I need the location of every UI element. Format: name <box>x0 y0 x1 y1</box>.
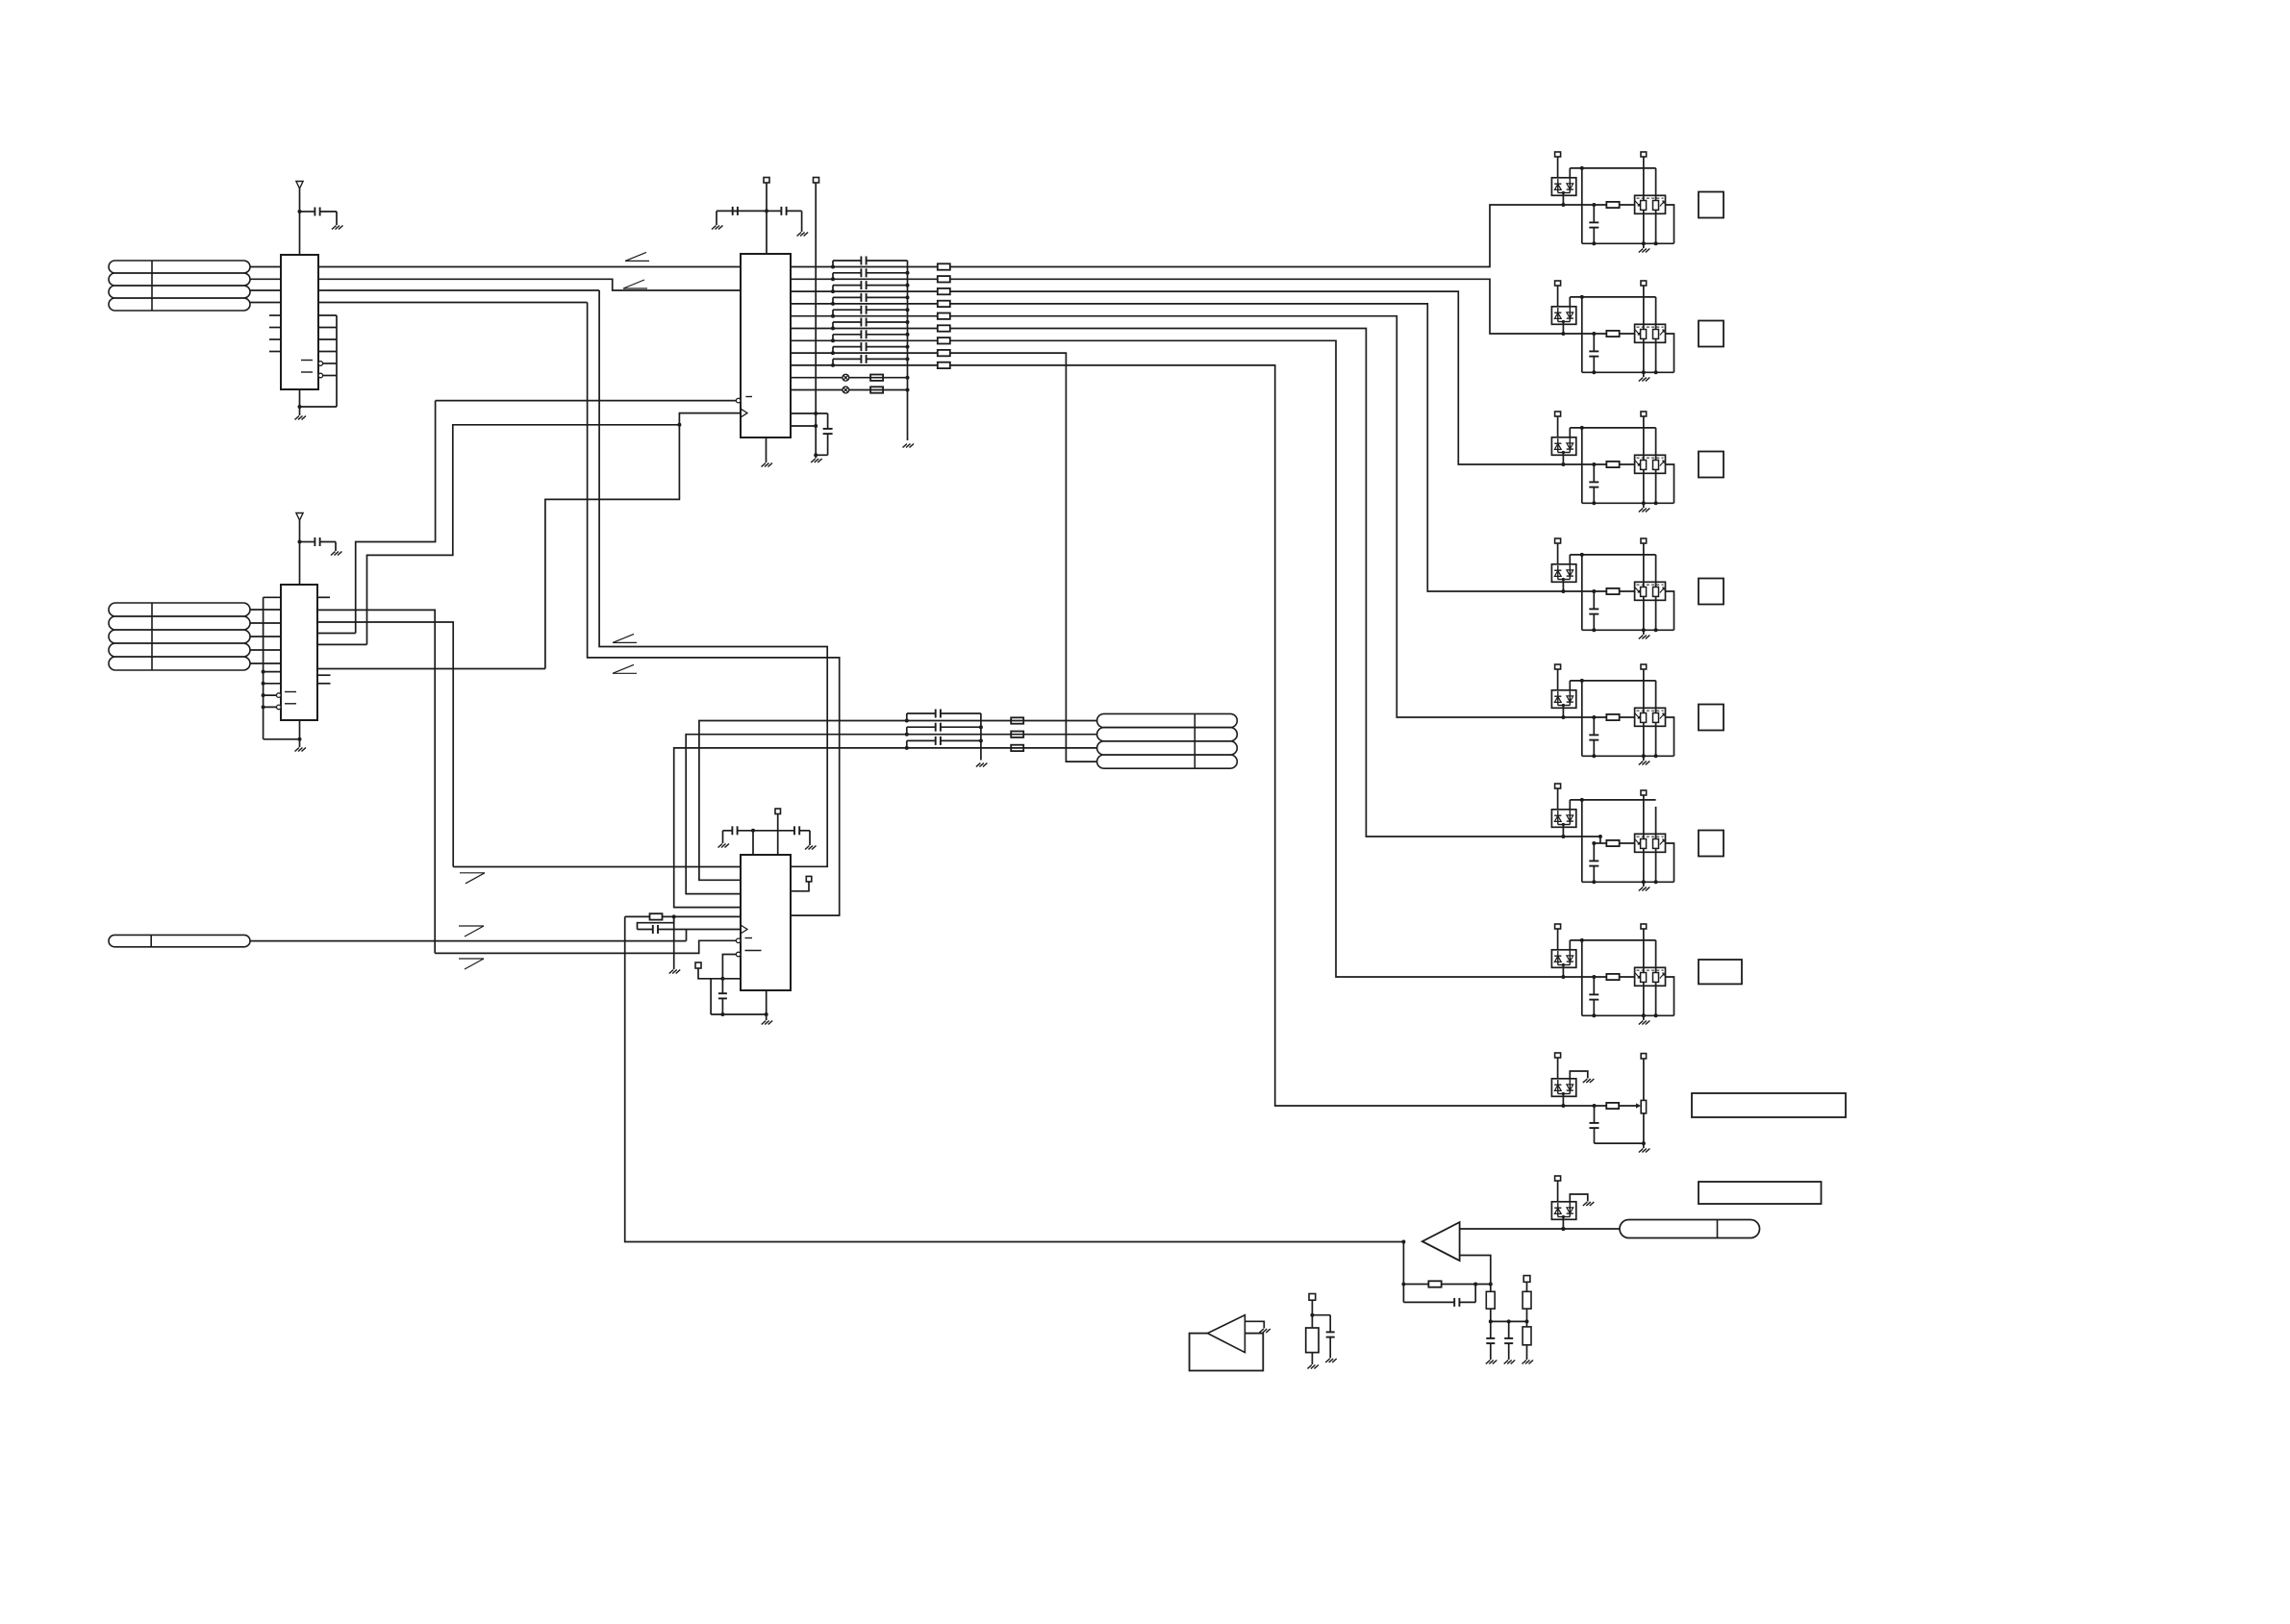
ground D jog <box>1583 1079 1595 1083</box>
TVS diode D box <box>1551 178 1575 196</box>
wire Rb to relay <box>1620 976 1635 978</box>
capacitor C8 <box>673 916 675 922</box>
wire R4 left <box>625 915 650 917</box>
ground U3 <box>762 463 773 467</box>
connector J3 pill contacts <box>1097 713 1238 727</box>
zener D left <box>1557 565 1559 580</box>
capacitor C13 <box>832 286 834 292</box>
wire D jog to ground 9 <box>1570 1194 1588 1202</box>
terminal TP7 <box>1309 1294 1316 1301</box>
resistor R8 <box>1526 1282 1528 1291</box>
arrow K right <box>1660 587 1665 593</box>
TVS diode D box <box>1551 1202 1575 1220</box>
node block9 junction <box>1561 1227 1565 1231</box>
output port P8 <box>1692 1093 1846 1117</box>
node cap top junction <box>1592 462 1596 466</box>
wire U4 clock net row <box>453 866 741 868</box>
wire K right riser <box>1655 555 1657 587</box>
net arrow U4 row1 <box>460 872 485 874</box>
node SCK branch junction <box>677 423 681 427</box>
TVS diode D box <box>1551 564 1575 583</box>
wire TP5 net to U4 pin <box>722 955 736 979</box>
resistor R15 <box>938 313 950 319</box>
capacitor C1 <box>300 211 315 212</box>
wire relay return <box>1666 205 1674 243</box>
wire D to line <box>1562 453 1564 465</box>
node R4 junction <box>672 914 676 918</box>
wire D common <box>1558 705 1571 707</box>
terminal T1 <box>1555 664 1561 669</box>
speaker LS1 <box>1190 1334 1264 1371</box>
zener D left <box>1557 179 1559 193</box>
zener D left <box>1557 811 1559 825</box>
terminal T2 <box>1641 412 1647 416</box>
U2 right stub a <box>317 674 331 676</box>
output port P5 <box>1699 705 1724 731</box>
connector J3 divider <box>1194 713 1195 768</box>
terminal TP6 <box>1523 1276 1530 1283</box>
wire D common <box>1558 321 1571 323</box>
wire TP1 to U3 <box>766 183 768 254</box>
zener D right <box>1569 950 1571 965</box>
wire U3 out3 <box>791 290 938 292</box>
output port P2 <box>1699 321 1724 347</box>
ground block <box>1643 503 1645 508</box>
node TP7 junction <box>1310 1313 1314 1317</box>
wire relay return <box>1666 334 1674 372</box>
resistor K left element <box>1641 330 1647 339</box>
resistor K left element <box>1641 201 1647 211</box>
node A1 fb junction <box>1401 1283 1405 1287</box>
wire D to line <box>1562 706 1564 718</box>
TVS diode D box <box>1551 810 1575 828</box>
ground C4 <box>797 233 809 237</box>
net arrow U2 row5 <box>613 672 637 674</box>
ground C6 <box>718 844 730 848</box>
node out7 cap junction <box>831 338 835 342</box>
ground block <box>1643 882 1645 887</box>
wire U2 row4 out <box>317 643 367 645</box>
wire Rb to relay <box>1620 590 1635 592</box>
node cap top junction <box>1592 332 1596 336</box>
node out5 cap junction <box>831 314 835 318</box>
wire K left to ground rail <box>1643 848 1645 882</box>
connector J5 pill <box>1620 1220 1760 1238</box>
node cap bottom junction <box>1592 754 1596 758</box>
arrow K right <box>1660 973 1665 979</box>
arrow K right <box>1660 330 1665 336</box>
wire out2 to block2 <box>950 279 1607 334</box>
wire U3 out5 <box>791 315 938 317</box>
resistor K left element <box>1641 839 1647 849</box>
node inv junction <box>1489 1283 1493 1287</box>
ground D jog 9 <box>1583 1202 1595 1206</box>
node cap bottom junction <box>1592 1013 1596 1017</box>
surge block 5 <box>1551 664 1673 765</box>
wire amp input net <box>1460 1228 1620 1230</box>
node cap bottom junction <box>1592 241 1596 245</box>
antenna ANT1 <box>296 182 303 189</box>
capacitor C11 <box>832 261 834 267</box>
capacitor C17 <box>832 335 834 341</box>
wire T2 to K <box>1643 286 1645 330</box>
node cap top junction <box>1592 589 1596 593</box>
wire K left to ground rail <box>1643 469 1645 503</box>
terminal T1 <box>1555 1176 1561 1181</box>
op-amp A1 <box>1422 1222 1460 1261</box>
node cap top junction <box>1592 841 1596 845</box>
node out2 cap junction <box>831 277 835 281</box>
resistor R5 <box>1606 1103 1619 1109</box>
capacitor C12 <box>832 273 834 280</box>
wire relay return <box>1666 717 1674 756</box>
wire R4 ground drop <box>673 916 675 969</box>
wire K right riser <box>1655 168 1657 201</box>
wire A1 inverting input <box>1460 1256 1491 1292</box>
node top rail junction <box>1580 798 1584 802</box>
wire T1 to D <box>1557 543 1559 564</box>
node cap bottom junction <box>1592 880 1596 884</box>
resistor K right element <box>1653 713 1659 723</box>
resistor R13 <box>938 288 950 294</box>
wire relay return <box>1666 977 1674 1015</box>
wire supply drop <box>1581 428 1583 503</box>
ground C12 <box>1486 1361 1497 1364</box>
U2 ground rail wire <box>264 738 300 740</box>
wire T1 to D <box>1557 669 1559 690</box>
wire K right riser <box>1655 297 1657 330</box>
wire top rail <box>1569 555 1571 564</box>
net arrow J4 b <box>459 958 484 960</box>
capacitor C15 <box>832 310 834 316</box>
node cap top junction <box>1592 203 1596 207</box>
wire D to line <box>1562 965 1564 978</box>
wire top rail <box>1569 681 1571 690</box>
resistor Rb <box>1606 840 1619 846</box>
wire K left to ground rail <box>1643 596 1645 630</box>
wire U4 VDD riser <box>752 831 754 855</box>
wire supply drop <box>1581 555 1583 630</box>
arrow K right <box>1660 201 1665 207</box>
ground C7 <box>805 846 817 850</box>
wire supply drop <box>1581 168 1583 243</box>
wire relay return <box>1666 464 1674 503</box>
node out9 cap junction <box>831 363 835 367</box>
resistor K right element <box>1653 839 1659 849</box>
output port P7 <box>1699 960 1742 984</box>
wire R7 to bias rail <box>1490 1309 1492 1321</box>
wire bias rail <box>1490 1320 1527 1322</box>
ground C14 <box>1325 1359 1337 1362</box>
IC U3 <box>741 254 791 437</box>
wire bottom rail <box>1582 502 1674 504</box>
wire U2 row1 out <box>317 610 435 953</box>
trimmer RV1 <box>1641 1100 1646 1113</box>
IC U2 <box>281 585 317 720</box>
ground bus J3 <box>976 763 988 767</box>
capacitor Cb <box>1593 464 1595 482</box>
wire out5 to block5 <box>950 316 1607 717</box>
zener D right <box>1569 307 1571 322</box>
resistor R22 <box>870 387 883 392</box>
zener D right <box>1569 690 1571 706</box>
ground C13 <box>1504 1361 1516 1364</box>
optocoupler K box <box>1635 834 1666 852</box>
U2 top-left stub <box>264 596 281 598</box>
U2 right stub pin <box>317 596 330 598</box>
terminal TP1 <box>764 178 769 184</box>
resistor R7 <box>1486 1291 1495 1309</box>
resistor Rb <box>1606 462 1619 467</box>
wire R4 to U4 <box>663 915 741 917</box>
optocoupler K box <box>1635 582 1666 600</box>
net arrow data1 <box>623 287 647 289</box>
wire K left to ground rail <box>1643 210 1645 243</box>
net arrow data0 <box>625 260 649 262</box>
node D junction <box>1561 1227 1565 1231</box>
resistor R10 <box>1306 1328 1319 1353</box>
resistor R14 <box>938 301 950 307</box>
arrow K right <box>1660 461 1665 466</box>
wire Rb to relay <box>1620 842 1635 844</box>
wire supply drop <box>1581 681 1583 756</box>
wire U1 data1 to U3 <box>318 279 741 290</box>
arrow K right <box>1660 839 1665 845</box>
resistor Rb <box>1606 714 1619 720</box>
wire K right to ground rail <box>1655 982 1657 1015</box>
resistor R33 <box>1011 745 1023 751</box>
wire audio feedback run <box>625 916 1404 1241</box>
wire R5 to RV1 <box>1619 1105 1638 1107</box>
node D junction <box>1561 1104 1565 1108</box>
resistor R6 <box>1403 1284 1428 1286</box>
wire SCK branch <box>367 425 680 645</box>
resistor K left element <box>1641 713 1647 723</box>
wire U3 out2 <box>791 278 938 280</box>
wire K right to ground rail <box>1655 722 1657 756</box>
node top rail junction <box>1580 426 1584 430</box>
wire VDD rail mid <box>753 830 778 832</box>
antenna ANT2 <box>296 513 303 521</box>
resistor K right element <box>1653 461 1659 470</box>
wire U3 osc2 <box>791 389 908 391</box>
terminal T2 <box>1641 152 1647 157</box>
capacitor C21 <box>906 713 908 721</box>
connector J1 pill contacts <box>109 261 250 273</box>
zener D left <box>1557 308 1559 322</box>
wire D to line <box>1562 193 1564 206</box>
zener D left <box>1557 691 1559 706</box>
node top rail junction <box>1580 553 1584 557</box>
wire out7 to block7 <box>950 340 1607 977</box>
wire T1 to D <box>1557 157 1559 178</box>
wire D common <box>1558 824 1571 826</box>
wire T2 to K <box>1643 416 1645 461</box>
wire U3 out1 <box>791 266 938 268</box>
U1 pin dashes <box>301 360 313 362</box>
wire K right to ground rail <box>1655 210 1657 243</box>
wire supply drop <box>1581 940 1583 1015</box>
node rowcap junction 1 <box>905 719 909 723</box>
zener D right <box>1569 564 1571 580</box>
resistor R9 <box>1522 1327 1531 1345</box>
capacitor C14 <box>832 297 834 304</box>
wire T1 to D <box>1557 1058 1559 1079</box>
wire Rb to relay <box>1620 463 1635 465</box>
optocoupler K box <box>1635 324 1666 342</box>
resistor K left element <box>1641 461 1647 470</box>
terminal T1 <box>1555 924 1561 929</box>
wire U3 out6 <box>791 328 938 330</box>
terminal T1 <box>1555 412 1561 416</box>
wire D common <box>1558 579 1571 581</box>
wire out8 to connector J3 <box>950 353 1097 762</box>
zener D left <box>1557 438 1559 453</box>
resistor R12 <box>938 276 950 282</box>
capacitor C4 <box>767 210 781 212</box>
wire R8 to rail <box>1526 1309 1528 1321</box>
ground LS1 <box>1259 1329 1271 1333</box>
ground U1 <box>295 416 307 420</box>
ground block <box>1643 756 1645 761</box>
wire bottom rail <box>1582 371 1674 373</box>
wire antenna J4 row <box>250 940 687 942</box>
wire bottom rail <box>1582 755 1674 757</box>
ground block <box>1643 372 1645 377</box>
output port P1 <box>1699 192 1724 218</box>
wire U4 pin to row A <box>699 721 1097 881</box>
output port P4 <box>1699 579 1724 605</box>
ground block <box>1643 1015 1645 1020</box>
capacitor C23 <box>906 740 908 748</box>
wire T1 to D <box>1557 788 1559 810</box>
connector J4 pill <box>109 935 250 946</box>
node U1 VCC junction <box>298 210 302 213</box>
optocoupler K box <box>1635 195 1666 213</box>
wire U3 out8 <box>791 352 938 354</box>
resistor K right element <box>1653 973 1659 983</box>
TVS diode D box <box>1551 437 1575 456</box>
ground C3 <box>712 226 723 230</box>
wire K right to ground rail <box>1655 338 1657 372</box>
U4 inverted pin 2 <box>736 952 741 957</box>
ferrite bead FB1 <box>843 374 849 381</box>
capacitor C7 <box>778 830 794 832</box>
wire A1 feedback drop <box>1402 1242 1404 1303</box>
terminal TP5 <box>695 962 701 968</box>
wire supply drop <box>1581 297 1583 372</box>
node out4 cap junction <box>831 302 835 306</box>
wire U2 row3 out <box>317 633 356 635</box>
resistor K right element <box>1653 587 1659 597</box>
capacitor Cb <box>1593 334 1595 351</box>
wire D to line <box>1562 825 1564 837</box>
arrow K left <box>1635 587 1640 592</box>
node rowcap junction 3 <box>905 746 909 750</box>
node U4 VDD junction <box>751 829 755 833</box>
wire K right to ground rail <box>1655 596 1657 630</box>
resistor Rb <box>1606 331 1619 337</box>
wire T2 to K <box>1643 795 1645 839</box>
wire bottom rail <box>1582 629 1674 631</box>
wire D to line <box>1562 580 1564 592</box>
node D junction <box>1561 835 1565 838</box>
arrow K left <box>1635 330 1640 335</box>
ground block <box>1643 630 1645 635</box>
wire top rail <box>1569 428 1571 437</box>
node cap bottom junction <box>1592 501 1596 505</box>
wire out6 to block6 <box>950 329 1564 837</box>
wire U1 data0 to U3 <box>318 266 741 268</box>
arrow K left <box>1635 839 1640 844</box>
IC U4 <box>741 855 791 990</box>
connector J2 pill contacts <box>109 603 250 616</box>
capacitor C2 <box>300 541 315 543</box>
arrow K left <box>1635 201 1640 206</box>
wire K left to ground rail <box>1643 722 1645 756</box>
wire CS riser to U2 <box>356 401 436 634</box>
connector J1 divider <box>151 261 153 311</box>
zener D left <box>1557 951 1559 965</box>
ground R9 <box>1526 1345 1528 1360</box>
wire out9 to block8 <box>950 365 1607 1106</box>
capacitor bus J3 <box>980 713 982 761</box>
capacitor C19 <box>832 359 834 365</box>
wire U3 out4 <box>791 303 938 305</box>
wire U2 row5 out <box>317 668 545 670</box>
optocoupler K box <box>1635 455 1666 473</box>
U4 ground pin wire <box>766 990 768 1020</box>
zener D left <box>1557 1080 1559 1094</box>
wire D to line <box>1562 1217 1564 1230</box>
wire T1 to D <box>1557 1181 1559 1202</box>
wire U3 out9 <box>791 364 938 366</box>
wire K right to ground rail <box>1655 848 1657 882</box>
capacitor Cb <box>1593 717 1595 735</box>
wire K left to ground rail <box>1643 338 1645 372</box>
surge block 4 <box>1551 538 1673 639</box>
resistor R18 <box>938 350 950 356</box>
terminal T1 <box>1555 784 1561 788</box>
TVS diode D box <box>1551 950 1575 968</box>
wire LS1 terminal <box>1245 1321 1264 1328</box>
resistor R17 <box>938 337 950 343</box>
wire TP2 rail <box>815 183 817 455</box>
ground ladder bus <box>903 444 915 448</box>
wire TP7 down <box>1311 1300 1313 1328</box>
terminal TP4 <box>806 876 812 882</box>
net arrow U2 row3 <box>613 641 637 643</box>
U1 left stub pins <box>269 314 281 316</box>
resistor R31 <box>1011 717 1023 723</box>
node out6 cap junction <box>831 327 835 331</box>
wire RV1 to rail <box>1643 1113 1645 1143</box>
wire out3 to block3 <box>950 291 1607 464</box>
terminal T2 <box>1641 664 1647 669</box>
output port P6 <box>1699 831 1724 857</box>
wire U2 row2 out <box>317 622 453 867</box>
capacitor C13 <box>1508 1321 1510 1338</box>
U3 clock pin <box>741 409 747 417</box>
wire top rail <box>1569 800 1571 810</box>
connector J5 divider <box>1717 1220 1719 1238</box>
wire U4 pin to row B <box>686 735 1096 894</box>
U1 ground pin wire <box>299 389 301 415</box>
U4 pin dash 1 <box>745 937 753 939</box>
resistor R4 <box>650 913 663 919</box>
wire D common <box>1558 452 1571 454</box>
wire U4 pin to row C <box>674 748 1097 908</box>
